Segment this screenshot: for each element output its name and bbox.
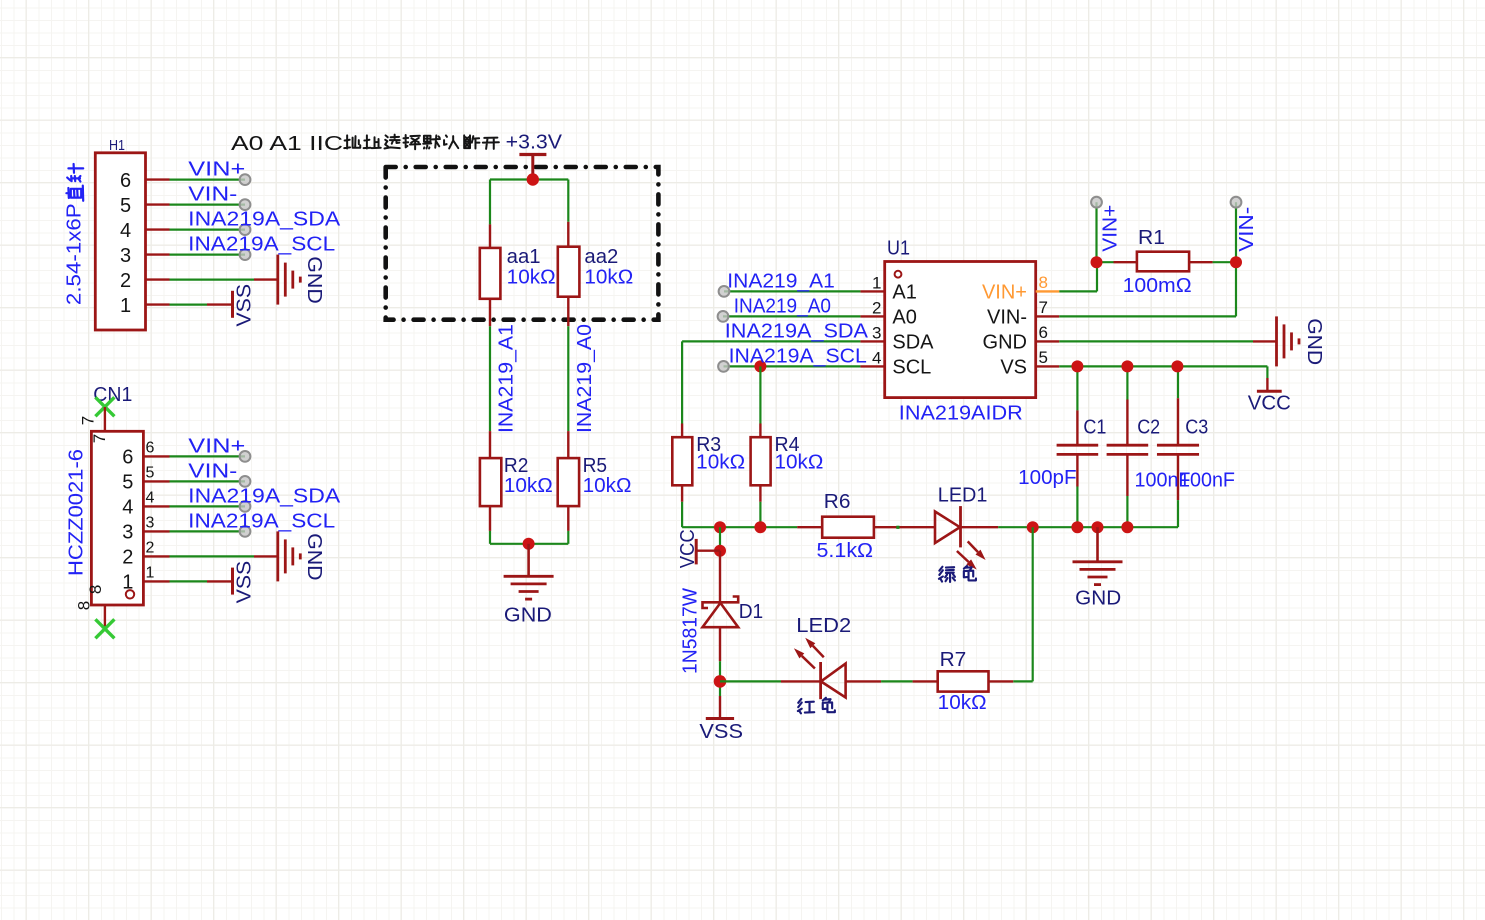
svg-text:10kΩ: 10kΩ xyxy=(504,475,553,497)
svg-text:R1: R1 xyxy=(1138,227,1165,249)
svg-text:1: 1 xyxy=(872,273,881,292)
svg-text:R2: R2 xyxy=(504,455,529,477)
svg-text:8: 8 xyxy=(75,601,94,610)
svg-text:VIN+: VIN+ xyxy=(188,435,245,457)
svg-text:6: 6 xyxy=(1039,323,1048,342)
svg-text:2: 2 xyxy=(872,298,881,317)
svg-text:VIN+: VIN+ xyxy=(188,159,245,181)
svg-text:10kΩ: 10kΩ xyxy=(938,692,987,714)
svg-text:SDA: SDA xyxy=(892,331,934,353)
svg-text:SCL: SCL xyxy=(892,356,931,378)
svg-text:INA219A_SDA: INA219A_SDA xyxy=(188,485,341,507)
svg-text:1N5817W: 1N5817W xyxy=(680,588,702,674)
svg-text:VIN+: VIN+ xyxy=(982,281,1027,303)
svg-text:100nF: 100nF xyxy=(1179,470,1235,492)
svg-text:LED2: LED2 xyxy=(796,615,851,637)
svg-text:INA219A_SDA: INA219A_SDA xyxy=(188,209,341,231)
svg-text:3: 3 xyxy=(872,323,881,342)
svg-text:INA219A_SCL: INA219A_SCL xyxy=(729,345,867,367)
svg-text:INA219_A1: INA219_A1 xyxy=(496,324,518,433)
svg-text:GND: GND xyxy=(303,256,325,304)
svg-text:7: 7 xyxy=(90,434,109,443)
svg-text:2: 2 xyxy=(120,270,131,292)
svg-text:6: 6 xyxy=(122,447,133,469)
svg-text:8: 8 xyxy=(86,585,105,594)
svg-text:INA219AIDR: INA219AIDR xyxy=(899,402,1023,424)
svg-text:4: 4 xyxy=(120,220,131,242)
svg-text:4: 4 xyxy=(122,497,133,519)
svg-text:GND: GND xyxy=(1075,588,1121,610)
svg-text:6: 6 xyxy=(120,170,131,192)
svg-text:1: 1 xyxy=(146,564,155,581)
svg-text:VSS: VSS xyxy=(233,284,255,327)
svg-text:INA219_A0: INA219_A0 xyxy=(574,324,596,433)
svg-text:A1: A1 xyxy=(892,281,916,303)
svg-text:3: 3 xyxy=(122,522,133,544)
svg-text:VSS: VSS xyxy=(233,561,255,604)
svg-text:aa1: aa1 xyxy=(507,246,541,268)
svg-text:U1: U1 xyxy=(887,237,910,259)
svg-text:10kΩ: 10kΩ xyxy=(507,266,556,288)
svg-text:C3: C3 xyxy=(1185,417,1208,439)
svg-text:6: 6 xyxy=(146,439,155,456)
svg-text:A0 A1 IIC: A0 A1 IIC xyxy=(231,133,343,155)
svg-text:4: 4 xyxy=(872,348,881,367)
svg-text:5: 5 xyxy=(146,464,155,481)
svg-text:GND: GND xyxy=(303,533,325,581)
svg-text:10kΩ: 10kΩ xyxy=(775,452,824,474)
svg-text:5: 5 xyxy=(122,472,133,494)
svg-text:VSS: VSS xyxy=(699,721,743,743)
svg-text:GND: GND xyxy=(1303,318,1325,365)
svg-text:100mΩ: 100mΩ xyxy=(1123,275,1192,297)
svg-text:VIN+: VIN+ xyxy=(1100,205,1122,252)
svg-text:10kΩ: 10kΩ xyxy=(583,475,632,497)
svg-text:10kΩ: 10kΩ xyxy=(696,452,745,474)
svg-text:1: 1 xyxy=(120,295,131,317)
svg-text:VS: VS xyxy=(1000,356,1027,378)
svg-text:INA219_A1: INA219_A1 xyxy=(727,270,835,292)
svg-text:VIN-: VIN- xyxy=(987,306,1027,328)
svg-text:aa2: aa2 xyxy=(584,246,618,268)
svg-text:INA219A_SCL: INA219A_SCL xyxy=(188,234,335,256)
svg-text:C1: C1 xyxy=(1083,417,1106,439)
svg-text:5: 5 xyxy=(1039,348,1048,367)
svg-text:VCC: VCC xyxy=(677,529,699,568)
svg-text:7: 7 xyxy=(1039,298,1048,317)
svg-text:7: 7 xyxy=(79,416,98,425)
svg-text:HCZZ0021-6: HCZZ0021-6 xyxy=(66,449,88,576)
svg-text:2: 2 xyxy=(146,539,155,556)
svg-text:10kΩ: 10kΩ xyxy=(584,266,633,288)
svg-text:5.1kΩ: 5.1kΩ xyxy=(817,540,874,562)
svg-text:GND: GND xyxy=(983,331,1027,353)
svg-text:INA219A_SDA: INA219A_SDA xyxy=(725,320,869,342)
svg-text:+3.3V: +3.3V xyxy=(506,132,563,154)
svg-text:R7: R7 xyxy=(940,649,967,671)
svg-text:4: 4 xyxy=(146,489,155,506)
svg-text:3: 3 xyxy=(146,514,155,531)
svg-text:LED1: LED1 xyxy=(938,484,988,506)
svg-text:INA219_A0: INA219_A0 xyxy=(734,295,831,317)
svg-text:GND: GND xyxy=(504,604,552,626)
svg-text:INA219A_SCL: INA219A_SCL xyxy=(188,510,335,532)
svg-text:VCC: VCC xyxy=(1248,393,1291,415)
svg-text:VIN-: VIN- xyxy=(188,184,237,206)
svg-text:C2: C2 xyxy=(1137,417,1160,439)
svg-text:R5: R5 xyxy=(583,455,608,477)
svg-text:100pF: 100pF xyxy=(1018,467,1076,489)
svg-text:VIN-: VIN- xyxy=(1236,207,1258,252)
svg-text:2: 2 xyxy=(122,547,133,569)
svg-text:VIN-: VIN- xyxy=(188,460,237,482)
svg-text:2.54-1x6P: 2.54-1x6P xyxy=(64,203,86,305)
svg-text:5: 5 xyxy=(120,195,131,217)
svg-text:8: 8 xyxy=(1039,273,1048,292)
svg-text:R6: R6 xyxy=(824,491,851,513)
svg-text:D1: D1 xyxy=(739,601,764,623)
svg-text:A0: A0 xyxy=(892,306,916,328)
svg-text:3: 3 xyxy=(120,245,131,267)
